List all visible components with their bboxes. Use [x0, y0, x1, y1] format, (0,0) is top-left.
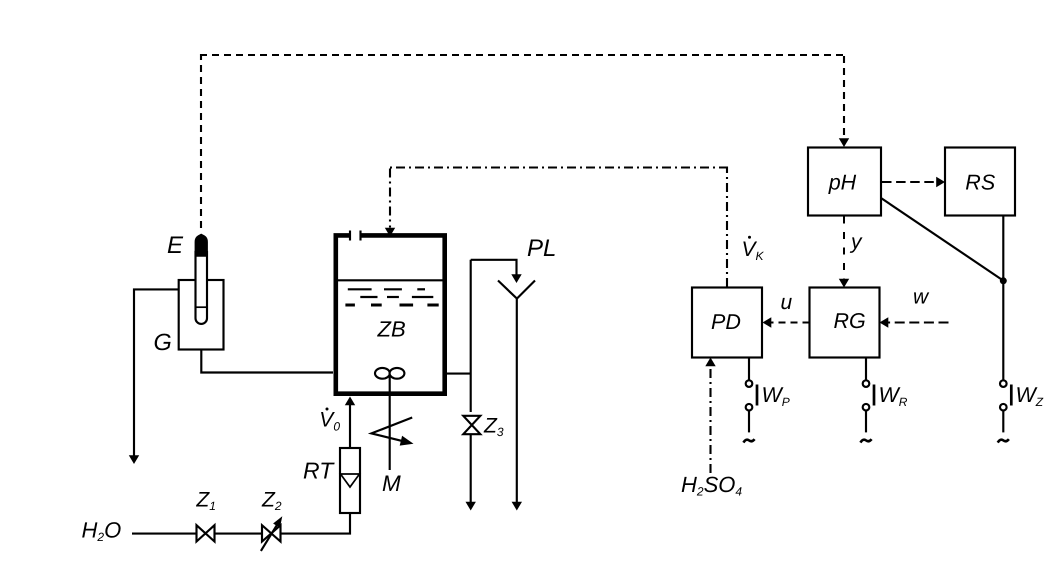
svg-text:PL: PL	[527, 235, 556, 262]
wire overflow top to funnel	[471, 260, 517, 275]
svg-text:E: E	[167, 232, 184, 259]
wire RS bottom down	[1002, 216, 1004, 381]
block RS	[945, 148, 1015, 216]
tank top gap tick left	[349, 231, 351, 241]
svg-text:ZB: ZB	[377, 316, 406, 341]
block PD	[692, 288, 762, 358]
rotameter float triangle	[341, 474, 360, 487]
svg-text:RT: RT	[303, 458, 335, 484]
water dashes row1	[348, 288, 425, 290]
electrode E tube	[196, 252, 208, 324]
tank ZB border	[336, 235, 445, 393]
arrowhead into pH top	[839, 138, 849, 147]
block pH	[808, 148, 881, 216]
electrode black cap	[195, 234, 208, 257]
svg-text:PD: PD	[711, 310, 741, 334]
arrowhead drain down	[129, 455, 139, 464]
svg-text:u: u	[781, 291, 793, 314]
svg-text:w: w	[913, 286, 930, 309]
valve Z2	[262, 525, 281, 541]
switch WZ	[998, 380, 1044, 442]
wire diagonal pH to WZ line	[881, 198, 1003, 281]
switch WP	[743, 358, 789, 443]
motor lightning arrow	[371, 418, 412, 441]
svg-text:G: G	[154, 329, 172, 355]
svg-text:y: y	[849, 231, 863, 254]
wire G left drain	[134, 289, 179, 457]
water dashes row2	[360, 296, 433, 298]
wire tank right overflow	[445, 373, 471, 375]
junction dot	[1000, 277, 1007, 284]
tank water level line	[338, 279, 443, 281]
wire dashed feedback E to pH	[200, 54, 202, 228]
svg-text:H2SO4: H2SO4	[681, 472, 742, 499]
valve Z3	[463, 416, 480, 434]
wire G bottom to tank	[201, 350, 333, 373]
wire Z3 drain down	[470, 434, 472, 506]
wire dash-dot H2SO4 into PD	[709, 364, 711, 473]
wire dash-dot VK line PD to tank	[726, 167, 728, 288]
pipe bottom feed	[132, 513, 350, 534]
wire dashed pH to RG, label y	[843, 217, 845, 281]
arrowhead into tank top	[385, 228, 395, 237]
tank top gap tick right	[359, 231, 361, 241]
wire dashed RG to PD, label u	[769, 321, 810, 323]
svg-text:pH: pH	[828, 171, 857, 195]
arrowhead into funnel	[511, 274, 521, 283]
stirrer shaft	[389, 374, 391, 470]
arrowhead Z3 drain	[466, 502, 476, 511]
wire dashed w to RG	[887, 322, 949, 324]
vessel G	[179, 280, 224, 350]
wire overflow riser	[470, 260, 472, 412]
svg-text:M: M	[382, 471, 401, 496]
electrode inner line	[196, 306, 208, 308]
arrowhead V0 up	[345, 397, 355, 406]
arrowhead funnel drain	[512, 502, 522, 511]
rotameter RT	[340, 448, 360, 513]
valve Z2 arrow	[261, 524, 278, 551]
svg-text:RS: RS	[965, 171, 996, 195]
stirrer propeller	[375, 368, 390, 379]
switch WR	[860, 358, 907, 443]
pipe V0 into tank	[349, 402, 351, 448]
block RG	[810, 288, 880, 358]
svg-text:RG: RG	[834, 309, 866, 333]
valve Z1	[197, 525, 215, 541]
funnel PL	[498, 281, 517, 507]
wire dashed pH to RS	[882, 181, 938, 183]
water dashes row3	[345, 304, 438, 307]
